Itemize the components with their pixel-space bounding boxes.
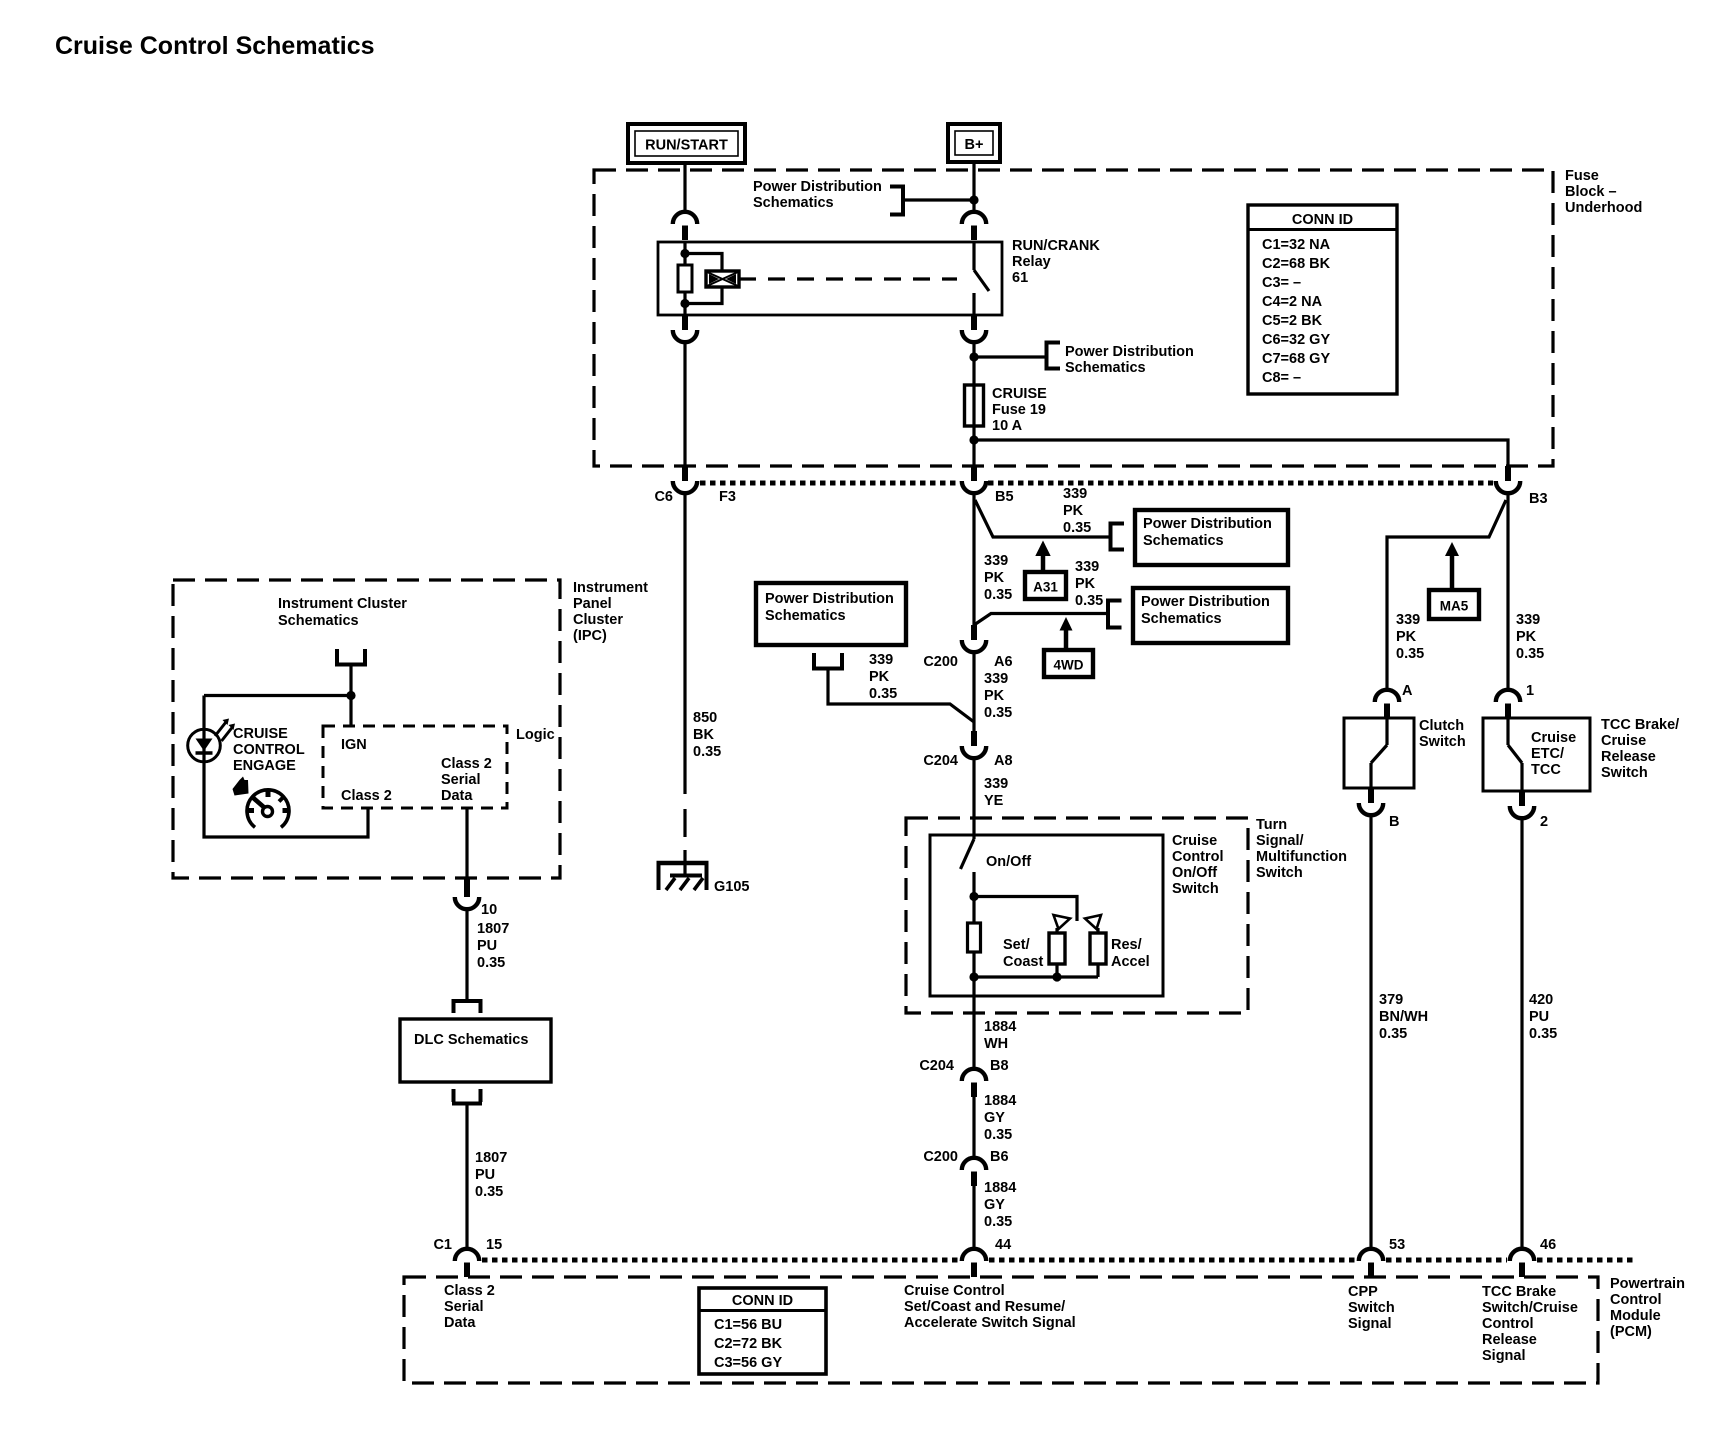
svg-text:46: 46 bbox=[1540, 1237, 1556, 1253]
svg-text:Logic: Logic bbox=[516, 727, 555, 743]
svg-text:15: 15 bbox=[486, 1237, 502, 1253]
wire C200 to C204 bbox=[972, 652, 975, 731]
wire IGN feed bbox=[204, 691, 356, 726]
wire B+ to connector bbox=[969, 162, 978, 212]
bracket to Power Distribution Schematics (top) bbox=[890, 187, 974, 215]
svg-text:C1: C1 bbox=[433, 1237, 452, 1253]
svg-text:1: 1 bbox=[1526, 683, 1534, 699]
svg-text:G105: G105 bbox=[714, 879, 749, 895]
clutch switch box bbox=[1344, 718, 1414, 788]
relay RUN/CRANK box bbox=[658, 242, 1002, 315]
svg-text:A: A bbox=[1402, 683, 1413, 699]
connector C204 B8 bbox=[962, 1069, 986, 1097]
svg-text:IGN: IGN bbox=[341, 737, 367, 753]
connector A bbox=[1375, 690, 1399, 718]
receptacle below DLC box bbox=[452, 1089, 482, 1104]
svg-text:C204: C204 bbox=[923, 753, 958, 769]
svg-text:A31: A31 bbox=[1033, 580, 1058, 595]
wire class 2 serial data out bbox=[465, 808, 468, 878]
wire DLC to PCM bbox=[465, 1104, 468, 1250]
grid reference A31 bbox=[1025, 541, 1066, 600]
svg-text:C200: C200 bbox=[923, 654, 958, 670]
svg-text:53: 53 bbox=[1389, 1237, 1405, 1253]
wire C6 to ground bbox=[683, 493, 686, 863]
connector below relay left bbox=[673, 315, 697, 342]
wire C204 to on/off switch bbox=[972, 758, 975, 839]
inline connector dotted line (top) bbox=[700, 481, 1493, 486]
wire branch to power distribution 2 bbox=[974, 614, 1108, 626]
connector 2 bbox=[1510, 791, 1534, 818]
connector below relay right bbox=[962, 315, 986, 342]
svg-text:A6: A6 bbox=[994, 654, 1013, 670]
Power Distribution Schematics box 2 bbox=[1133, 588, 1288, 643]
CONN ID table (fuse block) bbox=[1248, 205, 1397, 394]
relay control dashed line bbox=[739, 277, 957, 280]
relay suppressor bbox=[685, 254, 739, 304]
svg-text:2: 2 bbox=[1540, 814, 1548, 830]
svg-text:ClutchSwitch: ClutchSwitch bbox=[1419, 718, 1466, 750]
wire C200 to PCM 44 bbox=[972, 1186, 975, 1249]
svg-text:C6: C6 bbox=[654, 489, 673, 505]
bracket to PDS box 2 bbox=[1108, 601, 1122, 628]
resistor Set/Coast bbox=[1049, 928, 1065, 977]
fuse CRUISE Fuse 19 bbox=[965, 385, 984, 426]
resistor Res/Accel bbox=[1090, 928, 1106, 977]
contact arrow Res/Accel bbox=[1085, 915, 1101, 929]
svg-text:RUN/START: RUN/START bbox=[645, 138, 728, 154]
icon horn bbox=[233, 777, 249, 796]
grid reference 4WD bbox=[1044, 617, 1093, 677]
fuse block underhood dashed box bbox=[594, 170, 1553, 466]
svg-text:CONN ID: CONN ID bbox=[732, 1293, 793, 1309]
svg-text:B8: B8 bbox=[990, 1058, 1009, 1074]
svg-text:A8: A8 bbox=[994, 753, 1013, 769]
svg-text:CONN ID: CONN ID bbox=[1292, 212, 1353, 228]
contact arrow Set/Coast bbox=[1054, 915, 1071, 929]
wire branch B3 to clutch switch bbox=[1387, 500, 1506, 690]
grid reference MA5 bbox=[1429, 542, 1479, 619]
inline connector dotted line (PCM) bbox=[482, 1258, 1634, 1263]
connector B3 bbox=[1496, 466, 1520, 493]
connector C204 A8 bbox=[962, 731, 986, 758]
connector C200 A6 bbox=[962, 625, 986, 652]
CONN ID table (PCM) bbox=[699, 1288, 826, 1374]
logic dashed box bbox=[323, 726, 507, 808]
node top rail bbox=[969, 892, 1077, 921]
svg-text:DLC Schematics: DLC Schematics bbox=[414, 1032, 528, 1048]
relay coil bbox=[678, 242, 692, 315]
svg-text:CruiseControlOn/OffSwitch: CruiseControlOn/OffSwitch bbox=[1172, 833, 1224, 897]
icon speedometer gauge bbox=[247, 790, 289, 827]
svg-text:B6: B6 bbox=[990, 1149, 1009, 1165]
resistor main bbox=[968, 923, 981, 977]
wire RUN/START to connector bbox=[683, 163, 686, 212]
switch On/Off bbox=[961, 839, 975, 923]
Power Distribution Schematics box (middle) bbox=[756, 583, 906, 645]
bracket to Power Distribution Schematics (mid right) bbox=[974, 343, 1060, 369]
svg-text:C1=56 BUC2=72 BKC3=56 GY: C1=56 BUC2=72 BKC3=56 GY bbox=[714, 1317, 783, 1371]
connector 10 bbox=[455, 878, 479, 909]
connector on B+ feed bbox=[962, 212, 986, 240]
svg-text:B+: B+ bbox=[965, 137, 984, 153]
connector 1 bbox=[1496, 690, 1520, 718]
relay switch bbox=[974, 242, 989, 315]
wire middle PDS branch bbox=[828, 669, 974, 723]
connector 46 bbox=[1510, 1249, 1534, 1277]
svg-text:C200: C200 bbox=[923, 1149, 958, 1165]
svg-text:C204: C204 bbox=[919, 1058, 954, 1074]
DLC Schematics box bbox=[400, 1019, 551, 1082]
wire relay to fuse bbox=[969, 342, 978, 466]
svg-text:B: B bbox=[1389, 814, 1399, 830]
node bottom rail bbox=[969, 972, 1098, 981]
connector on RUN/START feed bbox=[673, 212, 697, 240]
svg-text:4WD: 4WD bbox=[1054, 658, 1084, 673]
wire branch to power distribution 1 bbox=[975, 500, 1111, 537]
receptacle below middle PDS box bbox=[812, 653, 844, 669]
svg-text:Class 2: Class 2 bbox=[341, 788, 392, 804]
wire clutch to PCM 53 bbox=[1369, 815, 1372, 1249]
cruise control on/off switch box bbox=[930, 835, 1163, 996]
ground G105 bbox=[657, 863, 709, 890]
connector B bbox=[1359, 788, 1383, 815]
svg-text:B5: B5 bbox=[995, 489, 1014, 505]
power feed RUN/START bbox=[628, 124, 745, 163]
power feed B+ bbox=[948, 124, 1000, 162]
connector B5 bbox=[962, 466, 986, 493]
wire fuse output to B3 bbox=[974, 440, 1508, 466]
wire relay to C6 bbox=[683, 342, 686, 466]
connector 44 bbox=[962, 1249, 986, 1277]
Power Distribution Schematics box 1 bbox=[1135, 510, 1288, 565]
wire to DLC bbox=[465, 909, 468, 1000]
TCC brake cruise release switch box bbox=[1483, 718, 1590, 791]
wire TCC to PCM 46 bbox=[1520, 818, 1523, 1249]
svg-text:F3: F3 bbox=[719, 489, 736, 505]
svg-text:B3: B3 bbox=[1529, 491, 1548, 507]
clutch switch blade bbox=[1371, 718, 1387, 788]
svg-text:44: 44 bbox=[995, 1237, 1011, 1253]
receptacle to instrument cluster schematics bbox=[335, 649, 367, 696]
svg-text:MA5: MA5 bbox=[1440, 599, 1469, 614]
connector C6 F3 bbox=[673, 466, 697, 493]
wire B3 down bbox=[1506, 493, 1509, 690]
svg-text:On/Off: On/Off bbox=[986, 854, 1031, 870]
wire LED to Class 2 bbox=[204, 762, 368, 837]
indicator LED CRUISE CONTROL ENGAGE bbox=[188, 696, 235, 763]
connector 53 bbox=[1359, 1249, 1383, 1277]
wire C204 to C200 bbox=[972, 1097, 975, 1158]
svg-text:Cruise Control Schematics: Cruise Control Schematics bbox=[55, 32, 375, 60]
wire B5 to C200 bbox=[972, 493, 975, 625]
connector C200 B6 bbox=[962, 1158, 986, 1186]
wire switch output bbox=[972, 977, 975, 1069]
connector C1 15 bbox=[455, 1249, 479, 1277]
TCC switch blade bbox=[1508, 718, 1522, 791]
PCM dashed box bbox=[404, 1277, 1598, 1383]
bracket to PDS box 1 bbox=[1111, 524, 1125, 550]
receptacle above DLC box bbox=[452, 1001, 482, 1013]
instrument panel cluster dashed box bbox=[173, 580, 560, 878]
svg-text:10: 10 bbox=[481, 902, 497, 918]
turn signal multifunction switch dashed box bbox=[906, 818, 1248, 1013]
